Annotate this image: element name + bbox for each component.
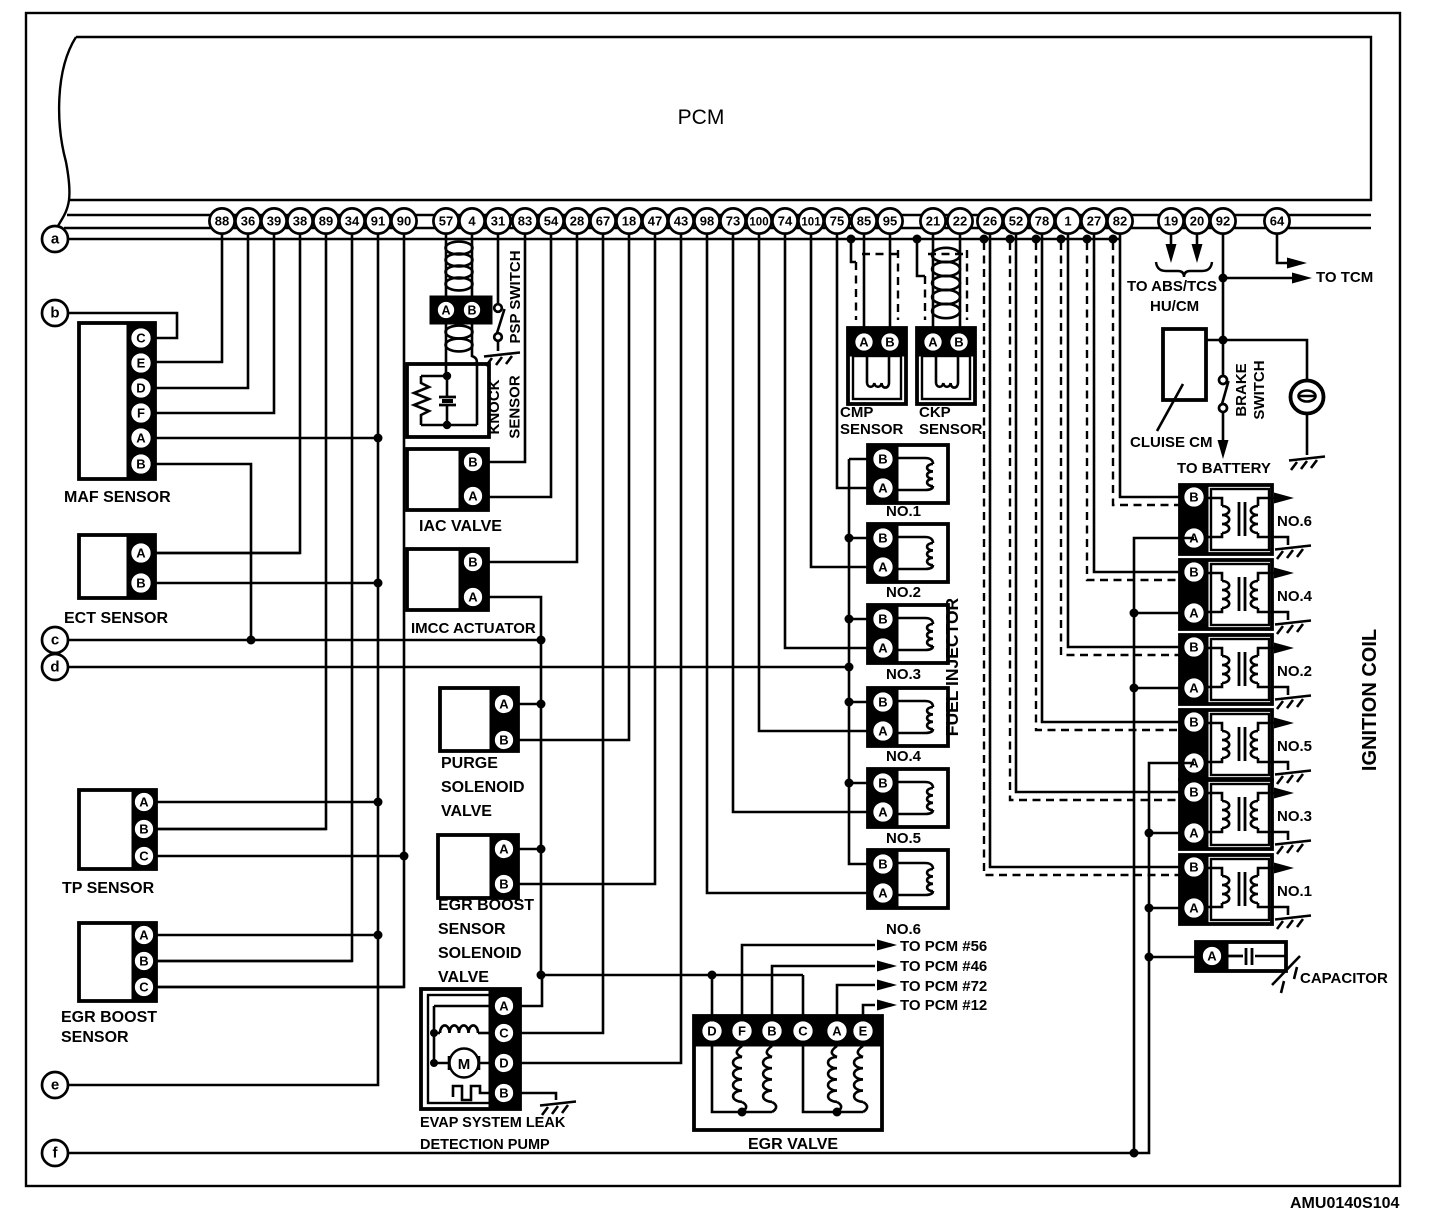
svg-text:B: B: [878, 452, 887, 467]
svg-text:D: D: [707, 1024, 716, 1039]
wire pin 1 to ignition coil no2 B: [1068, 221, 1194, 647]
connector band line lower: [64, 227, 1371, 230]
svg-text:A: A: [878, 560, 888, 575]
wire pin 92 down: [1222, 227, 1225, 340]
svg-text:NO.4: NO.4: [886, 748, 922, 765]
EVAP internal rail: [434, 1006, 494, 1063]
svg-text:38: 38: [293, 214, 307, 229]
ignition coil NO.1 pin A: [1183, 897, 1205, 919]
wire pin 92 to TCM arrow: [1223, 277, 1292, 280]
warning lamp: [1291, 381, 1324, 414]
svg-text:NO.3: NO.3: [1277, 808, 1312, 825]
svg-text:A: A: [1189, 681, 1199, 696]
brake switch contact lower: [1219, 404, 1227, 412]
svg-text:52: 52: [1009, 214, 1023, 229]
svg-text:BRAKE: BRAKE: [1233, 363, 1250, 416]
svg-text:B: B: [1189, 490, 1198, 505]
svg-text:NO.1: NO.1: [1277, 883, 1312, 900]
TP pin A: [134, 792, 155, 813]
fuel injector no4 box: [868, 688, 948, 746]
svg-text:89: 89: [319, 214, 333, 229]
svg-text:A: A: [1207, 949, 1217, 964]
pin 100: [746, 208, 771, 233]
CMP pin A: [854, 332, 874, 352]
ignition coil NO.4 secondary winding: [1258, 573, 1272, 581]
wire EGR boost sensor B to pin 34: [144, 960, 352, 963]
brake switch blade: [1222, 381, 1229, 404]
svg-text:TO PCM #56: TO PCM #56: [900, 938, 987, 955]
MAF pin F: [130, 402, 152, 424]
svg-text:B: B: [878, 531, 887, 546]
ignition coil NO.6 ground: [1272, 537, 1288, 545]
injector no6 pin B: [872, 853, 894, 875]
ECT pin A: [130, 542, 152, 564]
svg-text:SENSOR: SENSOR: [919, 421, 983, 438]
svg-text:4: 4: [468, 214, 476, 229]
pin 88: [209, 208, 234, 233]
ignition coil NO.2 core: [1239, 652, 1245, 686]
fuel injector no4 coil: [898, 701, 933, 707]
wire brake switch to battery: [1222, 412, 1225, 440]
wire pin 28 to IMCC B: [473, 221, 577, 562]
svg-text:75: 75: [830, 214, 844, 229]
svg-text:A: A: [878, 641, 888, 656]
svg-text:TP SENSOR: TP SENSOR: [62, 880, 155, 897]
injector no4 pin B: [872, 691, 894, 713]
EGR valve common D rail: [712, 1042, 772, 1112]
node f bus wire: [68, 1152, 1134, 1155]
svg-text:B: B: [878, 857, 887, 872]
svg-text:VALVE: VALVE: [441, 803, 492, 820]
fuel injector no5 coil: [898, 782, 933, 788]
pin 101: [798, 208, 823, 233]
svg-text:88: 88: [215, 214, 229, 229]
wire pin 75 to injector 1 A: [837, 221, 883, 488]
resistor in knock sensor: [414, 376, 429, 425]
injector no1 pin B: [872, 448, 894, 470]
svg-text:TO PCM #72: TO PCM #72: [900, 978, 987, 995]
wire knock B into box: [472, 320, 477, 425]
svg-text:A: A: [878, 481, 888, 496]
EGR valve common C rail: [803, 1042, 863, 1112]
svg-text:MAF SENSOR: MAF SENSOR: [64, 489, 171, 506]
svg-text:EGR BOOST: EGR BOOST: [438, 897, 534, 914]
wire EGR B to PCM 46: [772, 966, 875, 1020]
ignition coil NO.6 pin B: [1183, 486, 1205, 508]
svg-text:NO.6: NO.6: [1277, 513, 1312, 530]
svg-text:D: D: [136, 381, 145, 396]
pin 28: [564, 208, 589, 233]
ignition coil NO.6 core: [1239, 502, 1245, 536]
pin 38: [287, 208, 312, 233]
injector no5 pin A: [872, 801, 894, 823]
purge solenoid box: [440, 688, 518, 751]
CMP pickup coil: [866, 356, 869, 383]
MAF pin D: [130, 377, 152, 399]
wire pin 91 sensor reference to node e: [68, 221, 378, 1085]
injector no4 pin A: [872, 720, 894, 742]
svg-text:100: 100: [749, 217, 768, 229]
ignition coil NO.4 ground: [1272, 612, 1288, 620]
fuel injector no2 box: [868, 524, 948, 582]
node c: [42, 627, 68, 653]
wire pin 85 to CMP A: [863, 221, 866, 333]
svg-text:47: 47: [648, 214, 662, 229]
ignition coil NO.5 spark output: [1272, 722, 1276, 725]
svg-text:NO.2: NO.2: [1277, 663, 1312, 680]
IAC pin A: [463, 486, 484, 507]
wire EVAP B ground: [520, 1093, 556, 1100]
EVAP pump box: [421, 989, 520, 1109]
ignition coil A bus even: [1134, 538, 1194, 1153]
pin 19: [1158, 208, 1183, 233]
ignition coil NO.3 pin B: [1183, 781, 1205, 803]
EGR valve coil: [832, 1046, 837, 1057]
svg-text:c: c: [51, 632, 59, 649]
svg-text:73: 73: [726, 214, 740, 229]
svg-text:CLUISE CM: CLUISE CM: [1130, 434, 1213, 451]
CMP pin B: [880, 332, 900, 352]
MAF pin E: [130, 352, 152, 374]
svg-text:39: 39: [267, 214, 281, 229]
shield wire coil no6: [1109, 235, 1118, 244]
pin 36: [235, 208, 260, 233]
purge pin B: [494, 730, 515, 751]
EGR boost sensor box: [79, 923, 156, 1001]
MAF pin A: [130, 427, 152, 449]
ignition coil NO.4 primary winding: [1208, 573, 1222, 581]
shield wire coil no5: [1032, 235, 1041, 244]
injector no2 pin B: [872, 527, 894, 549]
svg-text:M: M: [458, 1056, 471, 1073]
EVAP pin B: [494, 1083, 515, 1104]
svg-text:d: d: [50, 659, 59, 676]
pin 1: [1055, 208, 1080, 233]
wire pin 98 to injector 6 A: [707, 221, 883, 893]
pin 75: [824, 208, 849, 233]
wire EGR D from bus: [711, 975, 714, 1020]
EGR pin C: [792, 1020, 814, 1042]
svg-text:98: 98: [700, 214, 714, 229]
svg-text:F: F: [137, 406, 145, 421]
IAC valve box: [407, 449, 488, 510]
wire pin 101 to injector 2 A: [811, 221, 883, 567]
svg-text:78: 78: [1035, 214, 1049, 229]
svg-text:EGR VALVE: EGR VALVE: [748, 1136, 838, 1153]
svg-text:NO.5: NO.5: [886, 830, 921, 847]
svg-text:26: 26: [983, 214, 997, 229]
wire pin 43 to EVAP pump D: [520, 221, 681, 1063]
wire EVAP A to bus: [520, 975, 542, 1006]
shield wire coil no1: [980, 235, 989, 244]
ignition coil NO.3 primary winding: [1208, 793, 1222, 801]
IMCC actuator box: [407, 549, 488, 610]
svg-text:NO.2: NO.2: [886, 584, 921, 601]
pin 91: [365, 208, 390, 233]
EGR pin D: [701, 1020, 723, 1042]
ignition coil NO.4 pin A: [1183, 602, 1205, 624]
svg-text:34: 34: [345, 214, 360, 229]
ignition coil NO.2 primary winding: [1208, 648, 1222, 656]
svg-text:1: 1: [1064, 214, 1071, 229]
pin 57: [433, 208, 458, 233]
pin 78: [1029, 208, 1054, 233]
svg-text:A: A: [878, 724, 888, 739]
svg-text:B: B: [767, 1024, 776, 1039]
ignition coil NO.2 pin B: [1183, 636, 1205, 658]
svg-text:54: 54: [544, 214, 559, 229]
wire EGR C from bus: [802, 975, 805, 1020]
injector no2 pin A: [872, 556, 894, 578]
svg-text:DETECTION PUMP: DETECTION PUMP: [420, 1137, 550, 1153]
svg-text:CKP: CKP: [919, 404, 951, 421]
svg-text:CAPACITOR: CAPACITOR: [1300, 970, 1388, 987]
EVAP pin C: [494, 1023, 515, 1044]
EGR boost sensor pin C: [134, 977, 155, 998]
svg-text:TO PCM #46: TO PCM #46: [900, 958, 987, 975]
svg-text:43: 43: [674, 214, 688, 229]
IAC pin B: [463, 452, 484, 473]
pin 90: [391, 208, 416, 233]
wire pin 82 to ignition coil no6 B: [1120, 221, 1194, 497]
wire pin 100 to injector 4 A: [759, 221, 883, 731]
wire pin 21 to CKP A: [932, 221, 935, 333]
svg-text:57: 57: [439, 214, 453, 229]
ignition coil NO.2 secondary winding: [1258, 648, 1272, 656]
ignition coil NO.5 secondary winding: [1258, 723, 1272, 731]
pin 82: [1107, 208, 1132, 233]
svg-text:B: B: [885, 335, 894, 350]
svg-text:64: 64: [1270, 214, 1285, 229]
wire junction to lamp: [1223, 340, 1307, 381]
ignition coil NO.3 box: [1180, 780, 1272, 849]
svg-text:A: A: [139, 795, 149, 810]
knock sensor bottom rail: [421, 424, 477, 427]
ignition coil NO.3 core: [1239, 797, 1245, 831]
wire pin 34 to EGR boost sensor B: [156, 221, 352, 961]
svg-text:SENSOR: SENSOR: [438, 921, 506, 938]
svg-text:67: 67: [596, 214, 610, 229]
knock connector pin B: [463, 301, 482, 320]
ignition coil NO.6 box: [1180, 485, 1272, 554]
svg-text:83: 83: [518, 214, 532, 229]
EGR boost sensor pin B: [134, 951, 155, 972]
svg-text:NO.3: NO.3: [886, 666, 921, 683]
PSP switch ground: [497, 341, 500, 351]
svg-text:B: B: [499, 877, 508, 892]
svg-text:NO.1: NO.1: [886, 503, 921, 520]
svg-text:92: 92: [1216, 214, 1230, 229]
node b: [42, 300, 68, 326]
svg-text:B: B: [468, 455, 477, 470]
svg-text:SENSOR: SENSOR: [61, 1029, 129, 1046]
knock sensor top rail: [421, 375, 447, 378]
svg-text:A: A: [928, 335, 938, 350]
svg-text:B: B: [878, 695, 887, 710]
wire pin 95 to CMP B: [889, 221, 892, 333]
svg-text:E: E: [137, 356, 146, 371]
svg-text:27: 27: [1087, 214, 1101, 229]
wire EGR A to PCM 72: [837, 985, 875, 1020]
svg-text:EVAP SYSTEM LEAK: EVAP SYSTEM LEAK: [420, 1115, 566, 1131]
wire pin 54 to IAC A: [473, 221, 551, 497]
TP sensor box: [79, 790, 156, 869]
MAF pin B: [130, 453, 152, 475]
knock connector pin A: [437, 301, 456, 320]
ignition coil NO.2 ground: [1272, 687, 1288, 695]
ignition coil NO.3 secondary winding: [1258, 793, 1272, 801]
wire purge A to bus: [504, 703, 541, 706]
cruise label pointer: [1157, 384, 1183, 431]
pin 21: [920, 208, 945, 233]
svg-text:C: C: [136, 331, 146, 346]
pin 64: [1264, 208, 1289, 233]
svg-text:CMP: CMP: [840, 404, 873, 421]
connector band line upper: [67, 214, 1371, 217]
wire IMCC A to node c: [473, 597, 541, 640]
node d bus wire: [68, 666, 849, 669]
ignition coil NO.6 primary winding: [1208, 498, 1222, 506]
lamp ground: [1306, 413, 1309, 455]
svg-text:B: B: [1189, 860, 1198, 875]
svg-text:B: B: [1189, 565, 1198, 580]
svg-text:IAC VALVE: IAC VALVE: [419, 518, 502, 535]
svg-text:B: B: [139, 822, 148, 837]
wire pin 27 to ignition coil no4 B: [1094, 221, 1194, 572]
wire ECT B to node 91: [141, 582, 378, 585]
svg-text:SENSOR: SENSOR: [507, 375, 524, 439]
CMP sensor box: [848, 328, 906, 404]
pin 73: [720, 208, 745, 233]
svg-text:VALVE: VALVE: [438, 969, 489, 986]
svg-text:A: A: [139, 928, 149, 943]
svg-text:NO.5: NO.5: [1277, 738, 1312, 755]
injector no3 pin B: [872, 608, 894, 630]
wire pin 4 to knock connector B: [471, 221, 474, 300]
wire TP A to node 91: [144, 801, 378, 804]
ignition coil NO.5 box: [1180, 710, 1272, 779]
svg-text:B: B: [136, 576, 145, 591]
svg-text:a: a: [51, 231, 60, 248]
MAF pin C: [130, 327, 152, 349]
IMCC pin A: [463, 587, 484, 608]
svg-text:B: B: [136, 457, 145, 472]
svg-text:18: 18: [622, 214, 636, 229]
svg-text:21: 21: [926, 214, 940, 229]
svg-text:A: A: [499, 842, 509, 857]
svg-text:HU/CM: HU/CM: [1150, 298, 1199, 315]
node a: [42, 226, 68, 252]
svg-text:74: 74: [778, 214, 793, 229]
wire EGR boost solenoid A to bus: [504, 848, 541, 851]
shield wire coil no2: [1057, 235, 1066, 244]
twisted pair knock wires upper: [446, 242, 473, 255]
EVAP pin D: [494, 1053, 515, 1074]
svg-text:A: A: [136, 431, 146, 446]
ignition coil NO.6 spark output: [1272, 497, 1276, 500]
svg-text:91: 91: [371, 214, 385, 229]
wire MAF B to node c: [141, 464, 251, 640]
wire EGR E to PCM 12: [863, 1005, 875, 1020]
svg-text:B: B: [878, 776, 887, 791]
wire pin 83 to IAC B: [473, 221, 525, 462]
fuel injector no2 coil: [898, 537, 933, 543]
svg-text:85: 85: [857, 214, 871, 229]
EGR valve coil: [858, 1046, 863, 1057]
wire ECT A to pin 38: [141, 552, 300, 555]
svg-text:31: 31: [491, 214, 505, 229]
EGR boost solenoid pin B: [494, 874, 515, 895]
node c bus wire: [68, 639, 541, 642]
ignition coil NO.5 pin A: [1183, 752, 1205, 774]
capacitor pin A: [1202, 946, 1223, 967]
PSP switch contact lower: [494, 333, 502, 341]
svg-text:TO TCM: TO TCM: [1316, 269, 1373, 286]
wire solenoid ground bus: [541, 640, 803, 975]
pin 54: [538, 208, 563, 233]
wire pin 78 to ignition coil no5 B: [1042, 221, 1194, 722]
svg-text:B: B: [1189, 785, 1198, 800]
svg-text:82: 82: [1113, 214, 1127, 229]
svg-text:NO.6: NO.6: [886, 921, 921, 938]
svg-text:101: 101: [801, 217, 821, 229]
pin 18: [616, 208, 641, 233]
pin 27: [1081, 208, 1106, 233]
pin 83: [512, 208, 537, 233]
wire pin 19 stub: [1170, 227, 1173, 246]
pin 34: [339, 208, 364, 233]
wire capacitor to bus: [1149, 956, 1196, 959]
svg-text:19: 19: [1164, 214, 1178, 229]
EVAP square wave element: [453, 1086, 494, 1100]
fuel injector no3 coil: [898, 618, 933, 624]
svg-text:TO BATTERY: TO BATTERY: [1177, 460, 1271, 477]
svg-text:A: A: [878, 805, 888, 820]
shield tap CKP sensor: [913, 235, 922, 244]
pin 22: [947, 208, 972, 233]
wire pin 67 to EVAP pump C: [520, 221, 603, 1033]
ignition coil NO.1 spark output: [1272, 867, 1276, 870]
pin 52: [1003, 208, 1028, 233]
injector no3 pin A: [872, 637, 894, 659]
ignition coil NO.6 secondary winding: [1258, 498, 1272, 506]
ignition coil NO.5 ground: [1272, 762, 1288, 770]
pin 4: [459, 208, 484, 233]
ignition coil NO.2 spark output: [1272, 647, 1276, 650]
svg-text:IGNITION COIL: IGNITION COIL: [1359, 629, 1381, 771]
pin 98: [694, 208, 719, 233]
capacitor in knock sensor: [446, 376, 449, 397]
knock connector: [430, 296, 492, 324]
EGR valve box: [694, 1016, 882, 1130]
twisted pair CKP wires: [932, 248, 960, 262]
EGR pin B: [761, 1020, 783, 1042]
CKP pickup coil: [935, 356, 938, 383]
wire knock A into box: [445, 320, 448, 376]
capacitor element: [1223, 948, 1252, 965]
wire EGR boost sensor C to pin 90: [144, 986, 404, 989]
svg-text:28: 28: [570, 214, 584, 229]
wire TP C to node 90: [144, 855, 404, 858]
svg-text:E: E: [859, 1024, 868, 1039]
ignition coil NO.3 pin A: [1183, 822, 1205, 844]
ECT pin B: [130, 572, 152, 594]
node a bus wire: [68, 238, 1121, 241]
svg-text:22: 22: [953, 214, 967, 229]
svg-text:C: C: [139, 849, 149, 864]
shield wire coil no3: [1006, 235, 1015, 244]
wire pin 89 to TP B: [156, 221, 326, 829]
